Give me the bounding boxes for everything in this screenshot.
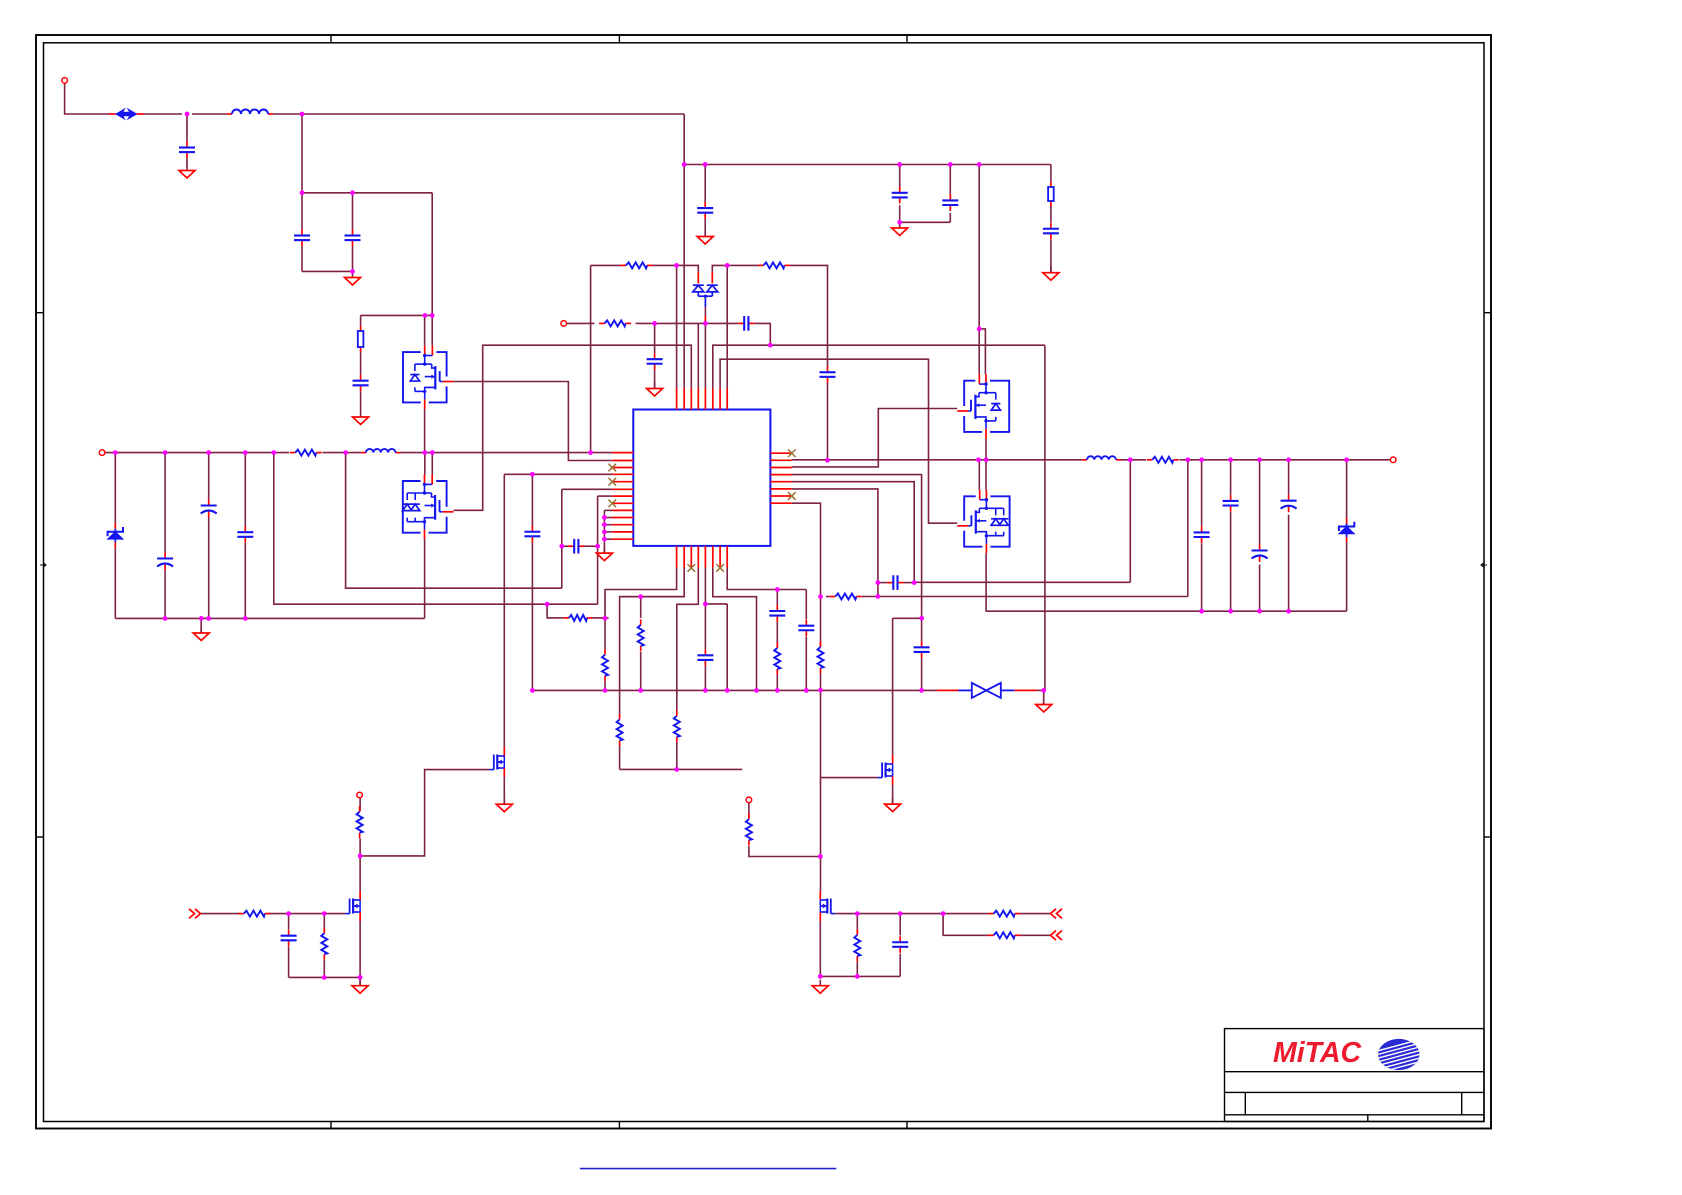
resistor R14 gate line <box>988 911 1020 917</box>
wire right 265 segment <box>712 265 727 271</box>
capacitor C25 1288 pol <box>1281 495 1297 513</box>
capacitor C5 x <box>738 316 754 331</box>
capacitor C10 950 <box>942 194 958 211</box>
wire terminal 748 column <box>748 803 750 819</box>
port P3 input <box>189 909 201 919</box>
mosfet module Q1A top-left <box>403 346 454 409</box>
bowtie diode D3 <box>958 683 1014 698</box>
capacitor C23 1230 <box>1223 495 1239 512</box>
wire fuse2 column <box>1050 165 1052 183</box>
wire 676 pin line <box>676 265 678 388</box>
IC U1 right pins <box>770 453 791 503</box>
wire 820 col below bus <box>820 690 822 856</box>
wire 820 col resistor to bus <box>820 597 822 647</box>
capacitor C2 <box>294 230 310 247</box>
wire right pin6 col 878 <box>792 489 878 597</box>
ground bus end <box>1036 699 1052 713</box>
mosfet Q5 <box>820 891 835 921</box>
wire VIN drop to branch <box>683 114 685 388</box>
capacitor C1 <box>179 142 195 159</box>
ground Q5 bottom <box>812 980 828 994</box>
ground IC left <box>596 547 612 561</box>
resistor R3 terminal line <box>599 320 631 326</box>
wire Q3 gate branch 935 <box>943 914 988 936</box>
capacitor C9 899 <box>892 187 908 204</box>
wire branch y164 to right <box>684 164 1051 166</box>
wire 698 vert <box>697 323 699 388</box>
capacitor C6 654 <box>647 353 663 370</box>
capacitor C11 1050 <box>1043 223 1059 240</box>
ground C11 <box>1043 267 1059 281</box>
wire bottom pin8 727 to 589 <box>727 568 806 590</box>
wire bottom pin1 676 net <box>605 568 677 619</box>
resistor R6 605 <box>602 649 608 681</box>
wire left VIN rail <box>102 452 289 454</box>
wire box2 gate riser <box>454 345 692 510</box>
border zone ticks <box>36 35 1491 1129</box>
wire resistor 547 link <box>547 604 563 618</box>
mosfet module Q1B bottom-left <box>403 475 454 540</box>
wire left rail caps <box>114 453 116 524</box>
ground C3 <box>345 272 361 286</box>
terminal T5 <box>357 792 363 798</box>
resistor R11 820 <box>818 642 824 674</box>
wire 979 column <box>978 165 980 329</box>
ground Q4 source <box>885 798 901 812</box>
wire 827 column <box>827 265 829 366</box>
wire right pin4 col 921 <box>792 475 922 619</box>
capacitor C8 827 <box>820 366 836 383</box>
wire 596 line right <box>826 596 830 598</box>
ground left rail <box>193 627 209 641</box>
fuse F3 <box>1048 182 1054 206</box>
capacitor C27 288 <box>281 930 297 947</box>
resistor R7 640 <box>638 619 644 651</box>
wire pin 720 net359 <box>720 359 957 523</box>
capacitor C12 pol <box>157 553 173 571</box>
wire Q1 gate <box>360 770 489 856</box>
wire gnd913 staircase <box>603 510 605 553</box>
resistor R2 top right <box>758 262 790 268</box>
capacitor C3 <box>345 230 361 247</box>
wire input port line 913 <box>201 913 241 915</box>
resistor R13 rail <box>1147 457 1179 463</box>
mosfet Q6 <box>345 891 360 921</box>
resistor R10 777 <box>774 643 780 675</box>
resistor R12 596 line <box>830 594 862 600</box>
resistor R1 top left <box>621 262 653 268</box>
wire bottom pin6 712 net <box>713 568 757 691</box>
wire VIN top rail <box>65 83 109 114</box>
wire bus gnd bus <box>532 689 937 691</box>
ground C4 <box>353 411 369 425</box>
capacitor C18 777 <box>769 605 785 622</box>
no-connect marks <box>609 449 796 571</box>
wire box2 top links <box>424 453 426 475</box>
wire left bottom rail <box>115 617 424 619</box>
Q3 gate resistor <box>357 806 363 838</box>
wire 705 vert <box>704 323 706 388</box>
wire cap705 column <box>704 165 706 203</box>
wire bus left cap column pin4L <box>504 473 532 475</box>
resistor R5 617 <box>563 615 592 621</box>
wire node302 <box>301 114 303 193</box>
mosfet Q4 <box>878 755 893 785</box>
wire 582 line right <box>914 581 1130 583</box>
resistor R15 gate line2 <box>988 932 1020 938</box>
wire dual diode tail <box>704 307 706 316</box>
capacitor C14 <box>237 526 253 543</box>
capacitor C4 <box>353 375 369 392</box>
wire right caps columns <box>1201 460 1203 526</box>
capacitor C20 896 x <box>887 575 903 590</box>
resistor R4 rail <box>290 450 322 456</box>
wire cap900 branch <box>899 165 901 188</box>
wire right pin8 col 820 <box>792 503 821 596</box>
wire Q3 gate rail <box>835 913 988 915</box>
wire box4 top links <box>978 460 980 490</box>
wire net618 <box>893 617 922 619</box>
wire bottom pin2 684 net <box>620 568 685 715</box>
resistor R17 input <box>238 911 270 917</box>
wire pin4L col 504 <box>503 474 505 747</box>
wire box3 gate link <box>792 409 957 467</box>
capacitor C15 532 <box>524 526 540 543</box>
terminal T2 <box>561 321 567 327</box>
ground C1 <box>179 165 195 179</box>
wire pin5 cap segment <box>878 582 887 584</box>
wire terminal resistor 323 line <box>567 322 595 324</box>
inductor L2 <box>361 449 401 453</box>
terminal T1 <box>62 78 68 84</box>
wire bottom pin4 698 net <box>677 568 699 711</box>
IC U1 top pins <box>677 388 728 409</box>
ground C7 <box>697 231 713 245</box>
wire 640 col <box>640 597 642 618</box>
zener D4 right <box>1339 518 1354 543</box>
border frame <box>36 35 1491 1129</box>
wire fuse1 column <box>431 193 433 316</box>
wire pin 712 net345 right <box>713 345 1045 388</box>
terminal T4 out <box>1390 457 1396 463</box>
MiTAC logo <box>1273 1037 1426 1074</box>
wire box2 bottom <box>424 539 426 618</box>
mosfet module Q2A top-right <box>957 374 1009 438</box>
title block <box>1225 1029 1485 1122</box>
IC U1 left pins <box>612 453 633 540</box>
port P1 <box>1051 909 1063 919</box>
terminal T3 <box>99 450 105 456</box>
wire right rail pin2 <box>792 459 1082 461</box>
IC U1 <box>633 410 770 546</box>
wire 654 cap gnd column <box>654 323 656 353</box>
wire box1 bottom to rail <box>424 409 426 453</box>
mosfet Q3 <box>489 747 504 777</box>
Q4 gate resistor <box>746 814 752 846</box>
ground C9 <box>892 222 908 236</box>
wire 605 res to bus <box>604 618 606 649</box>
fuse F2 <box>358 326 364 352</box>
wire box1 gate riser <box>454 382 613 461</box>
capacitor C22 1201 <box>1194 526 1210 543</box>
capacitor C24 1259 pol <box>1252 545 1268 563</box>
ground Q6 bottom <box>352 980 368 994</box>
mosfet module Q2B bottom-right <box>957 490 1009 553</box>
svg-text:MiTAC: MiTAC <box>1273 1037 1362 1069</box>
wire zener2 column <box>1346 460 1348 519</box>
IC U1 bottom pins <box>677 546 728 568</box>
wire right pin5 col 914 <box>792 482 914 583</box>
wire 590 column <box>590 265 592 452</box>
capacitor C7 705 <box>697 202 713 219</box>
capacitor C16 546 x <box>568 539 584 554</box>
wire 921 cap to bus <box>921 618 923 641</box>
wire box4 bottom net611 <box>985 553 987 611</box>
capacitor C13 pol <box>201 500 217 518</box>
wire cap187 column <box>186 114 188 142</box>
dual diode D1 <box>693 272 718 307</box>
resistor R18 324 <box>321 928 327 960</box>
wire 1045 column <box>1044 345 1046 690</box>
resistor R16 857 <box>854 929 860 961</box>
wire below-bus res line 769 <box>620 768 743 770</box>
wire Q4 drain gate <box>892 785 894 804</box>
footer underline <box>580 1168 836 1170</box>
resistor R8 619 below bus <box>617 714 623 746</box>
capacitor C21 921 <box>914 641 930 658</box>
capacitor C19 806 <box>798 620 814 637</box>
resistor R9 676 below bus <box>674 710 680 742</box>
wire input caps <box>288 914 290 930</box>
ground C6 <box>647 383 663 397</box>
wire box3 bottom link <box>985 438 987 459</box>
wire Q2 column <box>359 798 361 811</box>
ground Q3 source <box>496 798 512 812</box>
wire bottom pin5-8 join 603.9 <box>704 568 706 604</box>
capacitor C26 900 <box>892 936 908 953</box>
inductor L1 <box>227 110 273 115</box>
fuse F1 <box>109 109 144 119</box>
inductor L3 <box>1082 456 1121 460</box>
wire Q1 source gnd <box>503 777 505 804</box>
wire net345 pin6 <box>346 453 562 589</box>
wire net273 pin7 <box>274 453 598 605</box>
terminal T6 <box>746 797 752 803</box>
capacitor C17 705 below <box>697 649 713 666</box>
port P2 <box>1051 931 1063 941</box>
wire cap546 <box>562 545 568 547</box>
wire Q3 source gnd net <box>819 921 821 976</box>
